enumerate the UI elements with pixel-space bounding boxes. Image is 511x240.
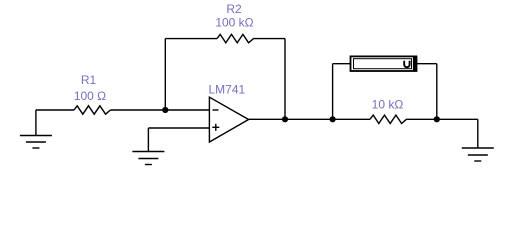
wire: non-inverting input stub — [148, 127, 209, 129]
wire: feedback right vertical to output node — [284, 39, 286, 120]
resistor R2 100 kOhm — [217, 34, 253, 42]
wire: non-inverting down to ground — [147, 128, 149, 152]
resistor R1 100 Ohm — [74, 106, 110, 114]
svg-text:R2: R2 — [226, 2, 242, 16]
resistor R3 10 kOhm — [370, 115, 406, 123]
node: meter right junction — [434, 116, 440, 122]
wire: voltmeter right lead vertical — [436, 64, 438, 120]
node: inverting input junction — [162, 107, 168, 113]
wire: 10k resistor to right corner — [406, 118, 478, 120]
voltmeter U body outer — [351, 56, 417, 71]
voltmeter right black bar — [413, 56, 417, 71]
wire: feedback top right horizontal — [253, 38, 285, 40]
wire: right vertical down to ground — [477, 119, 479, 148]
svg-text:R1: R1 — [81, 73, 97, 87]
op-amp minus sign — [213, 109, 219, 111]
wire: feedback left vertical — [164, 39, 166, 110]
voltmeter inner frame — [354, 59, 412, 69]
svg-text:100 Ω: 100 Ω — [74, 89, 106, 103]
svg-text:LM741: LM741 — [209, 83, 246, 97]
ground GND2 (below op-amp) — [132, 152, 164, 165]
wire: R1 to op-amp inverting input (through node) — [110, 109, 209, 111]
ground GND3 (right) — [462, 148, 494, 161]
wire: feedback top left horizontal — [165, 38, 217, 40]
svg-text:100 kΩ: 100 kΩ — [215, 16, 253, 30]
node: output junction — [282, 116, 288, 122]
ground GND1 (left) — [20, 110, 52, 148]
wire: voltmeter left lead vertical — [332, 64, 334, 120]
wire: voltmeter left lead horizontal — [333, 63, 351, 65]
wire: voltmeter right lead horizontal — [417, 63, 437, 65]
wire: op-amp output to 10k resistor — [249, 118, 370, 120]
wire: left ground to R1 — [36, 109, 74, 111]
voltmeter U label — [404, 61, 409, 67]
svg-text:10 kΩ: 10 kΩ — [372, 98, 404, 112]
op-amp U1 LM741 triangle — [209, 97, 248, 142]
node: meter left junction — [330, 116, 336, 122]
op-amp plus sign — [212, 124, 219, 131]
